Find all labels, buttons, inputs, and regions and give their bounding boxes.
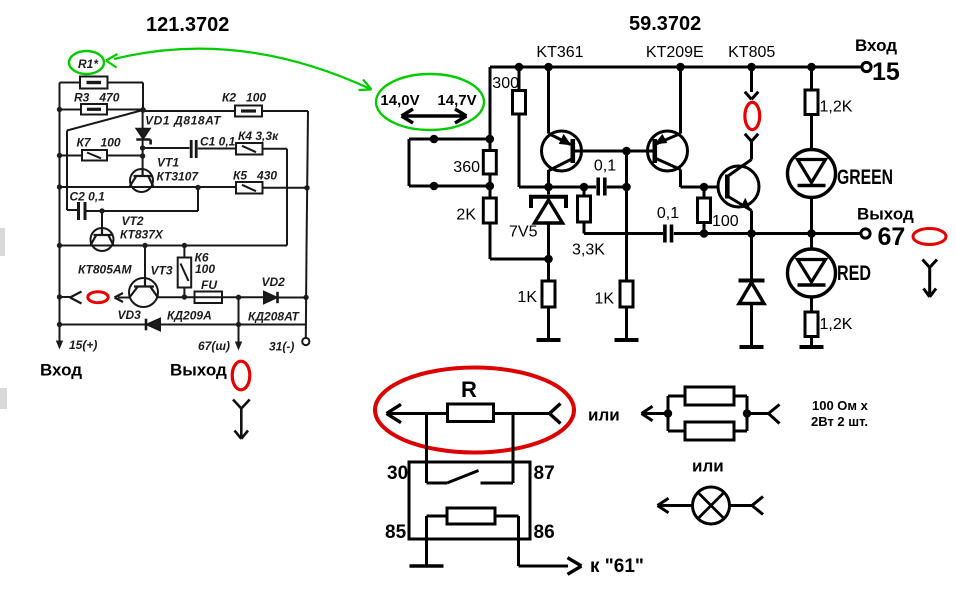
svg-text:86: 86 [534, 522, 555, 543]
wire emitter row with cut [60, 296, 130, 299]
resistor R [448, 404, 494, 422]
ground LED branch [800, 345, 824, 349]
svg-text:VT3: VT3 [151, 264, 173, 278]
svg-text:67(ш): 67(ш) [198, 339, 230, 353]
resistor 1,2K first [810, 67, 813, 150]
wire base bus vertical [625, 151, 628, 281]
wire coil leads [427, 516, 569, 566]
transistor VT1 KT3107 [130, 169, 153, 192]
resistor 3,3K [584, 187, 663, 234]
wire top rail [490, 67, 861, 139]
svg-text:КД208АТ: КД208АТ [248, 310, 301, 324]
resistor 360 [489, 139, 492, 186]
svg-text:КТ3107: КТ3107 [157, 170, 200, 184]
svg-text:14,0V: 14,0V [380, 92, 419, 109]
svg-text:15(+): 15(+) [69, 338, 97, 352]
svg-text:КТ837Х: КТ837Х [120, 228, 164, 242]
svg-text:КД209А: КД209А [167, 309, 212, 323]
relay contact 30-87 [427, 471, 514, 484]
svg-text:1,2K: 1,2K [820, 316, 853, 333]
red ellipse around R [375, 368, 574, 453]
diode VD3 KD209A [145, 319, 148, 331]
resistor K5 430 [236, 182, 263, 194]
wire K2 row [143, 110, 308, 112]
svg-text:VD3: VD3 [118, 308, 142, 322]
red ellipse cut mark VT3 [88, 292, 108, 303]
arrow toward cut [115, 293, 124, 302]
wire R3 row [60, 109, 144, 111]
wire VD1 vertical [142, 110, 144, 169]
scan smudge left edge 2 [0, 388, 7, 409]
svg-text:или: или [588, 406, 620, 425]
diode bottom [750, 234, 753, 279]
lamp alt [693, 487, 730, 524]
svg-text:R3 470: R3 470 [74, 91, 120, 105]
svg-text:К7 100: К7 100 [77, 136, 121, 150]
svg-text:C2 0,1: C2 0,1 [70, 190, 106, 204]
wire VT1 row [60, 186, 237, 188]
wire C2 to VT2 base [87, 187, 199, 229]
svg-text:C1 0,1: C1 0,1 [200, 135, 236, 149]
resistor R3 470 [81, 104, 107, 115]
capacitor C1 0,1 [191, 140, 196, 158]
svg-text:GREEN: GREEN [837, 166, 893, 189]
svg-text:15: 15 [872, 58, 900, 86]
svg-text:7V5: 7V5 [509, 224, 538, 241]
cut mark arrows KT805 [745, 67, 759, 141]
svg-text:0,1: 0,1 [594, 158, 616, 175]
svg-text:к "61": к "61" [590, 556, 644, 577]
svg-text:3,3K: 3,3K [572, 242, 605, 259]
fork right of R [550, 404, 561, 424]
wire K4 to right drop [263, 149, 288, 246]
fork right lamp [752, 497, 763, 515]
resistor R1 [80, 77, 108, 89]
transistor VT2 KT837X [91, 228, 114, 251]
ground 1K second [615, 338, 639, 342]
svg-text:85: 85 [385, 522, 407, 543]
fork contact [70, 292, 82, 304]
svg-text:100 Ом х: 100 Ом х [812, 398, 869, 413]
resistor 100 [703, 187, 706, 234]
green ellipse 14V [376, 74, 484, 130]
left rail wire [59, 83, 61, 325]
svg-text:360: 360 [453, 159, 480, 176]
wire top [60, 83, 144, 111]
wire output rail [674, 232, 860, 235]
arrow to k61 [568, 558, 582, 575]
resistor R6 100 [178, 258, 192, 288]
diode VD2 KD208AT [264, 292, 277, 303]
wire VD2 to rail [278, 297, 307, 299]
svg-text:VT2: VT2 [122, 214, 144, 228]
svg-text:RED: RED [837, 262, 871, 285]
wire C1 row [143, 147, 236, 150]
svg-text:67: 67 [878, 223, 906, 251]
wire R row [388, 412, 550, 415]
terminal 67 [861, 229, 870, 238]
resistor 1,2K second [805, 312, 818, 337]
svg-text:или: или [692, 457, 724, 476]
wire leads parallel [643, 412, 769, 415]
capacitor 0,1 first [598, 178, 605, 196]
wire VT2 row [60, 245, 288, 247]
svg-text:Выход: Выход [857, 205, 914, 224]
terminal 15 [862, 62, 871, 71]
fork right parallel [769, 405, 780, 424]
relay coil [447, 508, 495, 524]
svg-text:2Вт 2 шт.: 2Вт 2 шт. [811, 414, 868, 429]
wire diagonal from node to C2 branch [67, 110, 143, 210]
resistor 1K second [620, 281, 633, 307]
red ellipse below Vyhod [232, 361, 250, 390]
arrow left of R [387, 404, 402, 422]
svg-text:R1*: R1* [78, 57, 99, 71]
resistor 1K first [542, 281, 555, 307]
resistor K4 3,3k [236, 143, 263, 155]
red ellipse at 67 [913, 229, 946, 245]
wire bottom row [60, 324, 307, 326]
fuse FU [195, 292, 223, 304]
parallel resistors alt [685, 387, 734, 405]
wire R6 leads [183, 246, 185, 298]
svg-text:59.3702: 59.3702 [629, 13, 701, 35]
green curved arrow [114, 49, 372, 90]
wire K5 to right rail [263, 187, 307, 189]
wire brackets parallel [668, 396, 747, 431]
transistor KT805 [718, 166, 759, 207]
ground diode [740, 345, 764, 349]
relay box [409, 462, 530, 539]
wire to VD2 [239, 296, 265, 298]
wire drops into relay [427, 414, 514, 484]
wire VT3 to FU [158, 296, 239, 298]
antenna mark below [233, 400, 250, 439]
svg-text:2K: 2K [456, 207, 476, 224]
svg-text:Выход: Выход [170, 361, 227, 380]
svg-text:Вход: Вход [855, 36, 897, 55]
svg-text:VD1 Д818АТ: VD1 Д818АТ [145, 114, 222, 128]
svg-text:К4 3,3к: К4 3,3к [238, 129, 279, 143]
wire VT3 base drop [144, 246, 146, 279]
svg-text:VD2: VD2 [262, 275, 286, 289]
svg-text:КТ805АМ: КТ805АМ [78, 263, 133, 277]
svg-text:1K: 1K [517, 289, 537, 306]
red ellipse cut KT805 [745, 102, 760, 129]
svg-text:VT1: VT1 [157, 156, 179, 170]
arrow terminal 15 [56, 341, 63, 350]
LED RED [810, 234, 813, 250]
wire lamp leads [659, 504, 752, 507]
svg-text:300: 300 [492, 75, 519, 92]
svg-text:121.3702: 121.3702 [146, 14, 229, 36]
capacitor C2 0,1 [79, 202, 86, 220]
junction dots left schematic [57, 107, 310, 327]
svg-text:100: 100 [195, 262, 215, 276]
wire R7 row [60, 155, 143, 157]
transistor VT3 KT805AM [129, 278, 158, 307]
junction dots right schematic [430, 63, 816, 264]
svg-text:FU: FU [201, 278, 217, 292]
resistor 300 [519, 67, 549, 187]
wire 360 parallel bracket [409, 139, 490, 186]
svg-text:Вход: Вход [40, 361, 82, 380]
double arrow 14V [402, 109, 467, 123]
svg-text:1K: 1K [594, 291, 614, 308]
right rail wire [306, 111, 308, 338]
ground relay [410, 564, 444, 567]
antenna mark right [923, 260, 938, 297]
green ellipse around R1* [69, 51, 104, 74]
arrow terminal 67 [235, 342, 242, 351]
terminal 31 [302, 338, 309, 345]
svg-text:1,2K: 1,2K [820, 99, 853, 116]
svg-text:14,7V: 14,7V [437, 92, 476, 109]
svg-text:30: 30 [387, 463, 408, 484]
transistor KT361 [547, 67, 550, 134]
svg-text:К5 430: К5 430 [233, 169, 277, 183]
svg-text:KT209E: KT209E [646, 44, 704, 61]
svg-text:100: 100 [712, 213, 739, 230]
svg-text:KT361: KT361 [536, 44, 583, 61]
svg-text:0,1: 0,1 [657, 205, 679, 222]
transistor KT209E [648, 131, 688, 171]
resistor 2K [490, 186, 549, 259]
zener 7V5 [547, 187, 550, 195]
LED GREEN [788, 150, 836, 198]
svg-text:R: R [461, 377, 477, 402]
arrow left parallel [642, 406, 653, 421]
wire terminal 15 drop [59, 325, 61, 347]
wire collector row [549, 186, 627, 189]
capacitor 0,1 second [665, 225, 672, 243]
zener VD1 D818AT [137, 129, 150, 139]
svg-text:KT805: KT805 [728, 44, 775, 61]
resistor K2 100 [235, 106, 262, 117]
resistor K7 100 [82, 150, 107, 161]
junction dots parallel [664, 409, 672, 417]
arrow left lamp [658, 498, 669, 513]
ground 1K first [537, 338, 561, 342]
scan smudge left edge [0, 228, 5, 256]
svg-text:87: 87 [534, 463, 555, 484]
svg-text:К2 100: К2 100 [222, 91, 266, 105]
wire terminal 67 drop [238, 297, 240, 347]
svg-text:31(-): 31(-) [269, 340, 294, 354]
